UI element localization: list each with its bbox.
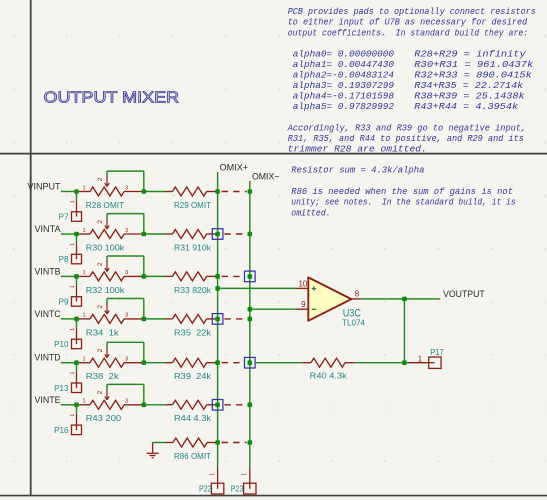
- op-amp U3C pin 9: [297, 300, 309, 309]
- resistor R31: [166, 230, 218, 239]
- wire R32 to R33: [144, 275, 166, 277]
- trimmer R28 pin 1: [79, 185, 90, 191]
- wire VINTA to junction: [61, 233, 77, 235]
- wire VINTE to junction: [61, 404, 77, 406]
- op-amp U3C body: [308, 277, 351, 320]
- svg-text:VINTB: VINTB: [35, 265, 61, 276]
- svg-text:3: 3: [125, 313, 128, 319]
- trimmer R30 pin 3: [124, 228, 144, 234]
- wire junction to P17: [404, 362, 408, 364]
- svg-text:VINTD: VINTD: [35, 352, 61, 363]
- junction at VINTD input: [74, 360, 79, 365]
- junction at VINPUT input: [74, 189, 79, 194]
- op-amp U3C pin 10: [297, 279, 309, 288]
- trimmer R28 wiper pin 2: [97, 176, 109, 187]
- svg-text:P10: P10: [54, 340, 69, 349]
- trimmer R30 body: [90, 230, 124, 239]
- svg-text:R40 4.3k: R40 4.3k: [310, 372, 348, 381]
- net label VOUTPUT: [443, 288, 485, 299]
- svg-text:R32 100k: R32 100k: [86, 286, 125, 295]
- trimmer R38 pin 3: [124, 357, 144, 363]
- junction VINTE row at OMIX+: [215, 403, 220, 408]
- svg-text:R39 24k: R39 24k: [174, 372, 212, 381]
- wire VINTD to junction: [61, 362, 77, 364]
- wire R38 to R39: [144, 362, 166, 364]
- trimmer R34 wiper pin 2: [97, 303, 109, 314]
- pad box VINTA row on OMIX+: [212, 229, 223, 240]
- svg-text:R43 200: R43 200: [86, 414, 122, 423]
- svg-text:1: 1: [82, 228, 85, 234]
- value label R28 OMIT: [86, 201, 124, 210]
- svg-text:9: 9: [301, 300, 306, 309]
- trimmer R38 body: [90, 358, 124, 367]
- trimmer R43 pin 3: [124, 399, 144, 405]
- wire R28 to R29: [144, 191, 166, 193]
- resistor R44: [166, 400, 218, 409]
- svg-text:2: 2: [97, 305, 104, 309]
- junction at VINTB input: [74, 274, 79, 279]
- junction OMIX- tap for - input: [248, 307, 253, 312]
- connector P17: [429, 348, 445, 369]
- svg-text:VOUTPUT: VOUTPUT: [443, 288, 485, 299]
- reference label U3C: [343, 308, 361, 320]
- dashed link VINPUT row: [222, 191, 247, 193]
- svg-text:VINTC: VINTC: [35, 308, 61, 319]
- svg-text:R31 910k: R31 910k: [174, 243, 212, 252]
- junction VINPUT row at OMIX+: [215, 189, 220, 194]
- junction VINTA row at OMIX+: [215, 232, 220, 237]
- connector P22 pin 1: [210, 467, 218, 483]
- svg-text:3: 3: [125, 270, 128, 276]
- value label TL074: [342, 317, 365, 327]
- wire VINTC to junction: [61, 318, 77, 320]
- svg-text:1: 1: [70, 243, 76, 246]
- wire wiper bridge of R43: [107, 384, 144, 404]
- svg-text:R35 22k: R35 22k: [174, 328, 212, 337]
- value label R43 200: [86, 414, 122, 423]
- svg-text:Resistor sum = 4.3k/alpha: Resistor sum = 4.3k/alpha: [291, 165, 424, 176]
- svg-text:OMIX+: OMIX+: [220, 161, 249, 172]
- svg-text:P7: P7: [59, 213, 69, 222]
- svg-text:P23: P23: [231, 484, 244, 493]
- svg-text:alpha0= 0.00000000: alpha0= 0.00000000: [293, 49, 395, 60]
- resistor R29: [166, 187, 218, 196]
- connector P8: [59, 254, 82, 264]
- connector P7 pin 1: [70, 200, 77, 212]
- wire R30 to R31: [144, 233, 166, 235]
- title text OUTPUT MIXER: [44, 89, 180, 106]
- svg-text:R38 2k: R38 2k: [86, 372, 120, 381]
- trimmer R28 pin 3: [124, 185, 144, 191]
- svg-text:PCB provides pads to optionall: PCB provides pads to optionally connect …: [288, 6, 536, 17]
- note: alpha coefficient table: [293, 49, 534, 113]
- junction VINTD row at OMIX-: [248, 360, 253, 365]
- svg-text:1: 1: [210, 473, 216, 476]
- connector P10: [54, 339, 81, 349]
- connector P17 pin 1: [409, 355, 429, 364]
- connector P16: [54, 425, 81, 435]
- wire R43 to R44: [144, 404, 166, 406]
- net label VINTC: [35, 308, 61, 319]
- junction R86 row at OMIX-: [248, 440, 253, 445]
- dashed link VINTA row: [224, 233, 246, 235]
- connector P9: [59, 297, 82, 307]
- svg-text:P22: P22: [199, 484, 212, 493]
- svg-text:omitted.: omitted.: [291, 207, 330, 218]
- svg-text:OMIX−: OMIX−: [252, 170, 280, 181]
- trimmer R32 wiper pin 2: [97, 260, 109, 271]
- junction VINTB row at OMIX-: [248, 274, 253, 279]
- svg-text:R43+R44 = 4.3954k: R43+R44 = 4.3954k: [414, 101, 518, 112]
- net label OMIX+: [220, 161, 249, 172]
- trimmer R34 body: [90, 314, 124, 323]
- sheet border bottom line: [0, 495, 547, 497]
- wire wiper bridge of R38: [107, 342, 144, 362]
- junction VINTD row at OMIX+: [215, 360, 220, 365]
- wire junction down to P10: [76, 319, 78, 328]
- svg-text:R28+R29 = infinity: R28+R29 = infinity: [414, 49, 526, 60]
- junction VINTC row at OMIX+: [215, 317, 220, 322]
- dashed link VINTD row: [222, 362, 244, 364]
- wire wiper bridge of R32: [107, 256, 144, 276]
- junction VINTB row at OMIX+: [215, 274, 220, 279]
- svg-text:2: 2: [97, 390, 104, 394]
- wire ground to R86: [153, 442, 166, 444]
- svg-text:3: 3: [125, 357, 128, 363]
- connector P13: [54, 383, 81, 393]
- junction output node: [402, 297, 407, 302]
- svg-text:TL074: TL074: [342, 317, 365, 327]
- trimmer R32 pin 1: [79, 270, 90, 276]
- wire OMIX+ to op-amp non-inverting input: [218, 287, 297, 289]
- resistor R86: [166, 438, 218, 447]
- junction trimmer R43 output: [142, 403, 147, 408]
- trimmer R30 wiper pin 2: [97, 218, 109, 229]
- svg-text:R86 OMIT: R86 OMIT: [174, 452, 211, 461]
- svg-text:to either input of U7B as nece: to either input of U7B as necessary for …: [288, 17, 528, 28]
- wire OMIX- to op-amp inverting input: [250, 308, 297, 310]
- junction trimmer R34 output: [142, 317, 147, 322]
- value label R86 OMIT: [174, 452, 211, 461]
- connector P7: [59, 212, 82, 222]
- svg-text:alpha2=-0.00483124: alpha2=-0.00483124: [293, 70, 394, 81]
- pad box VINTC row on OMIX+: [212, 314, 223, 325]
- trimmer R38 pin 1: [79, 357, 90, 363]
- value label R29 OMIT: [174, 201, 211, 210]
- svg-text:1: 1: [70, 371, 76, 374]
- op-amp U3C pin 8 output: [351, 289, 360, 299]
- connector P22: [199, 483, 224, 494]
- wire OMIX- pad box to R40: [255, 362, 302, 364]
- connector P13 pin 1: [70, 371, 77, 383]
- svg-text:1: 1: [82, 313, 85, 319]
- svg-text:3: 3: [125, 399, 128, 405]
- svg-text:3: 3: [125, 185, 128, 191]
- svg-text:2: 2: [97, 177, 104, 181]
- junction trimmer R32 output: [142, 274, 147, 279]
- trimmer R32 body: [90, 272, 124, 281]
- net label VINTB: [35, 265, 61, 276]
- svg-text:2: 2: [97, 262, 104, 266]
- wire junction down to P13: [76, 363, 78, 372]
- svg-text:1: 1: [418, 355, 423, 364]
- trimmer R32 pin 3: [124, 270, 144, 276]
- svg-text:R38+R39 = 25.1438k: R38+R39 = 25.1438k: [414, 91, 525, 102]
- svg-text:R34 1k: R34 1k: [86, 328, 120, 337]
- svg-text:Accordingly, R33 and R39 go to: Accordingly, R33 and R39 go to negative …: [287, 123, 526, 134]
- value label R35 22k: [174, 328, 212, 337]
- svg-text:alpha3= 0.19307299: alpha3= 0.19307299: [293, 80, 395, 91]
- svg-text:R29 OMIT: R29 OMIT: [174, 201, 211, 210]
- net label OMIX-: [252, 170, 280, 181]
- bus wire OMIX+ vertical: [217, 172, 219, 467]
- dashed link VINTE row: [224, 404, 246, 406]
- svg-text:R32+R33 = 890.0415k: R32+R33 = 890.0415k: [414, 70, 532, 81]
- note: R86 paragraph: [291, 186, 515, 218]
- junction at VINTE input: [74, 403, 79, 408]
- svg-text:alpha1= 0.00447430: alpha1= 0.00447430: [293, 59, 395, 70]
- junction VINTC row at OMIX-: [248, 317, 253, 322]
- svg-text:R30+R31 = 961.0437k: R30+R31 = 961.0437k: [414, 59, 534, 70]
- wire junction down to P9: [76, 276, 78, 285]
- svg-text:output coefficients. In stand: output coefficients. In standard build t…: [288, 27, 529, 38]
- wire junction down to P8: [76, 234, 78, 243]
- net label VINPUT: [28, 181, 61, 192]
- connector P9 pin 1: [70, 285, 77, 297]
- svg-text:8: 8: [355, 289, 360, 298]
- junction VINTA row at OMIX-: [248, 232, 253, 237]
- note: resistor sum formula: [291, 165, 424, 176]
- ground: [147, 443, 159, 458]
- dashed link R86 row: [222, 442, 247, 444]
- resistor R40: [302, 358, 354, 367]
- svg-text:2: 2: [97, 220, 104, 224]
- svg-text:R34+R35 = 22.2714k: R34+R35 = 22.2714k: [414, 80, 523, 91]
- net label VINTD: [35, 352, 61, 363]
- note: PCB pads paragraph: [288, 6, 536, 38]
- junction trimmer R28 output: [142, 189, 147, 194]
- connector P10 pin 1: [70, 328, 77, 340]
- svg-text:1: 1: [70, 285, 76, 288]
- value label R30 100k: [86, 243, 125, 252]
- svg-text:P8: P8: [59, 255, 69, 264]
- value label R44 4.3k: [174, 414, 212, 423]
- svg-text:VINTE: VINTE: [35, 394, 61, 405]
- trimmer R43 wiper pin 2: [97, 389, 109, 400]
- svg-text:P17: P17: [430, 348, 444, 357]
- trimmer R43 pin 1: [79, 399, 90, 405]
- trimmer R28 body: [90, 187, 124, 196]
- svg-text:P13: P13: [54, 384, 69, 393]
- value label R34 1k: [86, 328, 120, 337]
- junction feedback node: [402, 360, 407, 365]
- junction VINTE row at OMIX-: [248, 403, 253, 408]
- value label R32 100k: [86, 286, 125, 295]
- svg-text:R30 100k: R30 100k: [86, 243, 125, 252]
- bus wire OMIX- vertical: [249, 181, 251, 467]
- connector P23: [231, 483, 256, 494]
- svg-text:R44 4.3k: R44 4.3k: [174, 414, 212, 423]
- resistor R35: [166, 314, 218, 323]
- svg-text:R33 820k: R33 820k: [174, 286, 212, 295]
- wire VINPUT to junction: [61, 191, 77, 193]
- junction VINPUT row at OMIX-: [248, 189, 253, 194]
- svg-text:alpha4=-0.17101598: alpha4=-0.17101598: [293, 91, 395, 102]
- svg-text:P16: P16: [54, 426, 69, 435]
- wire wiper bridge of R34: [107, 299, 144, 319]
- wire wiper bridge of R30: [107, 214, 144, 234]
- junction trimmer R38 output: [142, 360, 147, 365]
- resistor R39: [166, 358, 218, 367]
- junction R86 row at OMIX+: [215, 440, 220, 445]
- svg-text:1: 1: [82, 399, 85, 405]
- junction at VINTA input: [74, 232, 79, 237]
- svg-text:1: 1: [70, 200, 76, 203]
- junction trimmer R30 output: [142, 232, 147, 237]
- dashed link VINTB row: [222, 275, 244, 277]
- svg-text:OUTPUT MIXER: OUTPUT MIXER: [44, 89, 180, 106]
- svg-text:P9: P9: [59, 298, 69, 307]
- svg-text:VINTA: VINTA: [35, 223, 62, 234]
- junction at VINTC input: [74, 317, 79, 322]
- junction OMIX+ tap for + input: [215, 286, 220, 291]
- sheet border vertical line: [30, 0, 32, 496]
- connector P23 pin 1: [242, 467, 250, 483]
- value label R31 910k: [174, 243, 212, 252]
- wire op-amp output to VOUTPUT: [361, 298, 441, 300]
- sheet border horizontal divider: [0, 153, 547, 155]
- trimmer R38 wiper pin 2: [97, 347, 109, 358]
- dashed link VINTC row: [224, 318, 246, 320]
- svg-text:unity; see notes. In the stan: unity; see notes. In the standard build,…: [291, 197, 515, 208]
- trimmer R34 pin 3: [124, 313, 144, 319]
- wire R40 to junction: [354, 362, 404, 364]
- trimmer R30 pin 1: [79, 228, 90, 234]
- svg-text:2: 2: [97, 348, 104, 352]
- svg-text:alpha5= 0.97829992: alpha5= 0.97829992: [293, 101, 395, 112]
- value label R40 4.3k: [310, 372, 348, 381]
- net label VINTA: [35, 223, 62, 234]
- wire junction down to P16: [76, 405, 78, 414]
- connector P16 pin 1: [70, 414, 77, 426]
- svg-text:1: 1: [82, 185, 85, 191]
- net label VINTE: [35, 394, 61, 405]
- value label R38 2k: [86, 372, 120, 381]
- svg-text:trimmer R28 are omitted.: trimmer R28 are omitted.: [288, 144, 427, 155]
- svg-text:1: 1: [82, 270, 85, 276]
- trimmer R43 body: [90, 400, 124, 409]
- svg-text:1: 1: [242, 473, 248, 476]
- note: accordingly paragraph: [287, 123, 526, 155]
- connector P8 pin 1: [70, 243, 77, 255]
- wire wiper bridge of R28: [107, 171, 144, 191]
- wire VINTB to junction: [61, 275, 77, 277]
- svg-text:3: 3: [125, 228, 128, 234]
- svg-text:VINPUT: VINPUT: [28, 181, 61, 192]
- value label R33 820k: [174, 286, 212, 295]
- svg-text:10: 10: [298, 279, 307, 288]
- trimmer R34 pin 1: [79, 313, 90, 319]
- svg-text:1: 1: [70, 414, 76, 417]
- svg-text:R31, R35, and R44 to positive,: R31, R35, and R44 to positive, and R29 a…: [288, 133, 524, 144]
- wire output down to feedback row: [403, 299, 405, 363]
- svg-text:1: 1: [82, 357, 85, 363]
- pad box VINTB row on OMIX-: [245, 271, 256, 282]
- pad box VINTD row on OMIX-: [245, 357, 256, 368]
- wire junction down to P7: [76, 192, 78, 201]
- svg-text:R28 OMIT: R28 OMIT: [86, 201, 124, 210]
- pad box VINTE row on OMIX+: [212, 400, 223, 411]
- value label R39 24k: [174, 372, 212, 381]
- resistor R33: [166, 272, 218, 281]
- svg-text:1: 1: [70, 328, 76, 331]
- svg-text:R86 is needed when the sum of: R86 is needed when the sum of gains is n…: [291, 186, 513, 197]
- wire R34 to R35: [144, 318, 166, 320]
